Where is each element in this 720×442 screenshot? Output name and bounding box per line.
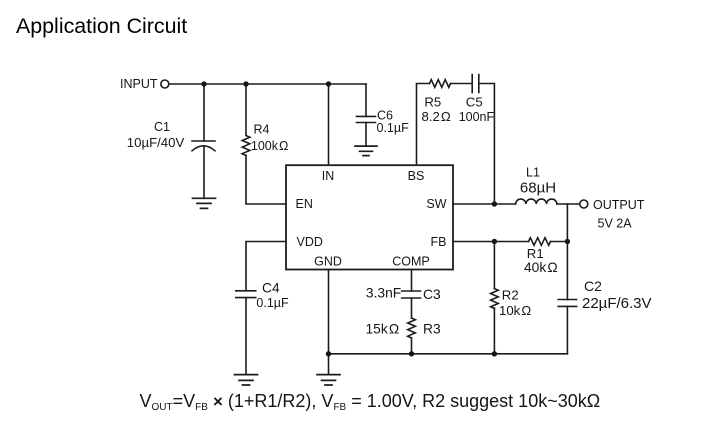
wire VDD pin to C4 (246, 242, 286, 291)
svg-text:R5: R5 (424, 95, 441, 110)
svg-text:R4: R4 (254, 123, 270, 137)
wire output vertical to C2 (566, 204, 568, 300)
wire R2 to bottom rail (493, 308, 495, 354)
wire IN pin stub (328, 84, 330, 165)
resistor R2 (491, 289, 499, 309)
node dot input/IN (326, 81, 331, 86)
svg-text:8.2 Ω: 8.2 Ω (422, 109, 451, 124)
inductor L1 (516, 199, 557, 204)
wire R3 to bottom rail (411, 338, 413, 354)
capacitor C5 plates (472, 75, 479, 93)
ground at C4 (235, 375, 258, 385)
wire R1 to output node (551, 241, 568, 243)
svg-text:100k Ω: 100k Ω (251, 139, 289, 153)
wire R2 branch from FB node (493, 242, 495, 289)
wire C1 to ground (203, 146, 205, 198)
svg-text:5V 2A: 5V 2A (598, 217, 633, 231)
svg-text:C1: C1 (154, 120, 170, 134)
svg-text:68µH: 68µH (520, 179, 556, 196)
svg-text:C2: C2 (584, 278, 602, 294)
svg-text:Application Circuit: Application Circuit (16, 14, 187, 38)
capacitor C1 plates (192, 140, 215, 142)
IC U1 body (286, 165, 453, 269)
ground at C1 (193, 198, 216, 208)
node dot input/R4 (243, 81, 248, 86)
svg-text:C5: C5 (466, 95, 483, 110)
node dot SW/C5 (492, 201, 497, 206)
output terminal circle (580, 200, 588, 208)
svg-text:INPUT: INPUT (120, 77, 158, 91)
svg-text:FB: FB (431, 235, 447, 249)
svg-text:VOUT=VFB × (1+R1/R2), VFB = 1.: VOUT=VFB × (1+R1/R2), VFB = 1.00V, R2 su… (140, 391, 601, 413)
wire R4 bottom to EN (246, 156, 286, 205)
capacitor C6 plates (357, 116, 376, 122)
ground at GND pin (317, 375, 340, 385)
wire C6 branch (365, 84, 367, 116)
svg-text:IN: IN (322, 169, 335, 183)
wire C5 to SW drop (479, 84, 495, 205)
svg-text:R3: R3 (423, 322, 441, 337)
svg-text:L1: L1 (526, 166, 540, 180)
svg-text:0.1µF: 0.1µF (256, 296, 289, 310)
wire C3 to R3 (411, 298, 413, 318)
resistor R4 (242, 136, 250, 156)
node dot FB/R2 (492, 239, 497, 244)
capacitor C2 plates (558, 300, 576, 307)
wire FB pin to R1 (453, 241, 529, 243)
svg-text:R2: R2 (502, 288, 519, 303)
svg-text:C4: C4 (262, 281, 280, 296)
resistor R3 (408, 318, 416, 338)
svg-text:100nF: 100nF (459, 110, 495, 124)
node dot R1/output (565, 239, 570, 244)
svg-text:VDD: VDD (297, 235, 323, 249)
svg-text:GND: GND (314, 254, 342, 268)
wire C6 to ground (365, 123, 367, 147)
capacitor C3 plates (402, 291, 421, 298)
svg-text:EN: EN (296, 197, 313, 211)
svg-text:OUTPUT: OUTPUT (593, 198, 645, 212)
wire C4 to ground (245, 298, 247, 375)
node dot GND/rail (326, 351, 331, 356)
wire R5 to C5 (451, 83, 473, 85)
svg-text:R1: R1 (527, 246, 544, 261)
svg-text:3.3nF: 3.3nF (366, 286, 401, 301)
input terminal circle (161, 80, 169, 88)
resistor R1 (529, 238, 551, 246)
wire C2 to bottom rail (566, 306, 568, 353)
node dot input/C1 (201, 81, 206, 86)
wire SW pin to L1 (453, 203, 516, 205)
wire R4 drop (245, 84, 247, 136)
svg-text:C3: C3 (423, 287, 441, 302)
wire GND pin to ground (328, 270, 330, 375)
svg-text:15k Ω: 15k Ω (366, 322, 400, 337)
wire L1 to output terminal (557, 203, 580, 205)
node dot R2/rail (492, 351, 497, 356)
svg-text:BS: BS (408, 169, 425, 183)
wire input rail (169, 83, 366, 85)
wire COMP pin to C3 (411, 270, 413, 292)
svg-text:10k Ω: 10k Ω (499, 303, 531, 318)
svg-text:SW: SW (426, 197, 446, 211)
resistor R5 (430, 80, 451, 88)
svg-text:40k Ω: 40k Ω (524, 260, 558, 275)
node dot R3/rail (409, 351, 414, 356)
wire BS pin riser (417, 84, 430, 166)
svg-text:10µF/40V: 10µF/40V (127, 135, 185, 150)
wire bottom ground rail (329, 353, 568, 355)
wire C1 branch drop (203, 84, 205, 141)
ground at C6 (355, 146, 377, 156)
svg-text:22µF/6.3V: 22µF/6.3V (582, 295, 652, 312)
capacitor C4 plates (236, 291, 256, 298)
svg-text:0.1µF: 0.1µF (377, 121, 410, 135)
svg-text:COMP: COMP (392, 254, 430, 268)
